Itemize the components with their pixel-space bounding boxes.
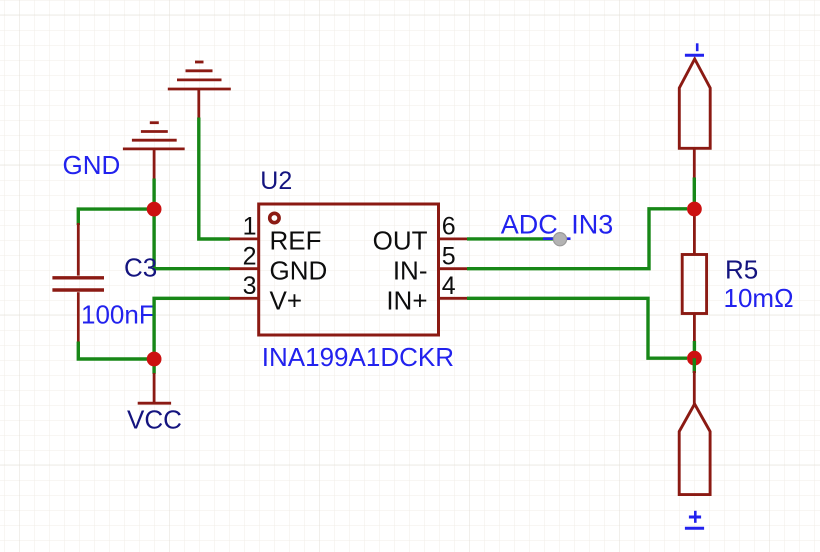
pin 3 V+ stub [230,297,260,300]
svg-text:1: 1 [243,213,257,241]
resistor R5 [682,212,706,342]
svg-text:3: 3 [243,272,257,300]
wire (junction down then right to pin 2) [154,209,230,269]
svg-text:U2: U2 [260,167,292,195]
wire (VCC junction up then right to pin 3) [154,298,230,359]
junction (VCC node) [147,352,162,367]
pin 2 GND stub [230,267,260,270]
svg-text:IN-: IN- [393,256,428,286]
svg-text:6: 6 [442,213,456,241]
junction (shunt top node) [687,202,702,217]
net label ADC_IN3 underscore [543,237,571,240]
svg-text:R5: R5 [725,254,758,284]
svg-text:5: 5 [442,242,456,270]
svg-text:OUT: OUT [373,226,428,256]
svg-text:V+: V+ [270,286,303,316]
connector pin P- (top pentagon) [679,59,710,148]
svg-text:2: 2 [243,242,257,270]
wire (lower ground down to junction) [152,179,155,210]
capacitor C3 [52,223,104,343]
label + (plus) [685,511,704,528]
junction (shunt bottom node) [687,351,702,366]
svg-text:100nF: 100nF [81,300,155,330]
svg-text:INA199A1DCKR: INA199A1DCKR [262,342,454,372]
pin stub (junction to pentagon apex) [693,371,696,405]
wire (pentagon to top junction) [693,178,696,210]
svg-text:REF: REF [270,226,322,256]
wire (R5 bottom to junction) [693,341,696,358]
junction (GND node) [147,202,162,217]
wire (pin 6 OUT to net label) [467,237,556,240]
svg-text:10mΩ: 10mΩ [724,283,794,313]
wire (junction left to capacitor top) [78,209,154,225]
op-amp U2 INA199 body [259,204,439,335]
svg-text:C3: C3 [124,252,157,282]
net label anchor dot [553,233,566,246]
pin stub (pentagon to wire) [693,149,696,179]
pin 5 IN- stub [439,267,469,270]
power symbol VCC [138,373,171,403]
ground symbol (upper, at pin 1 / REF net) [168,62,231,119]
svg-text:IN+: IN+ [386,286,427,316]
connector pin P+ (bottom pentagon) [679,404,710,495]
pin 6 OUT stub [439,237,469,240]
wire (bottom junction to pentagon) [693,358,696,373]
wire (VCC junction down) [152,359,155,374]
wire (capacitor bottom to VCC junction) [78,342,154,360]
svg-text:ADC: ADC [501,210,558,240]
wire (pin 5 IN- to top junction) [467,209,687,269]
wire (upper ground to pin 1) [199,118,230,240]
label - (minus) [685,43,704,55]
svg-text:4: 4 [442,272,456,300]
pin 1 REF stub [230,237,260,240]
svg-text:GND: GND [63,150,121,180]
pin 4 IN+ stub [439,297,469,300]
pin-1 indicator circle [270,213,279,222]
wire (pin 4 IN+ to bottom junction) [467,298,687,358]
ground symbol GND (lower, net GND) [123,123,185,180]
svg-text:IN3: IN3 [571,210,613,240]
svg-text:VCC: VCC [127,405,182,435]
svg-text:GND: GND [270,256,328,286]
